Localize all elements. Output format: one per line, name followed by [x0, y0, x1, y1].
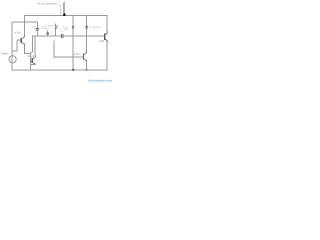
- inductor L1 coil: [64, 2, 65, 13]
- capacitor C1 vertical leads: [36, 22, 38, 36]
- svg-text:C2 4-40p: C2 4-40p: [44, 24, 53, 27]
- svg-text:BC548: BC548: [28, 55, 35, 58]
- resistor R1 dashes: [72, 26, 74, 28]
- wire top supply rail: [25, 15, 107, 17]
- wire Q2 base stub: [30, 60, 32, 62]
- wire Q1 emitter vertical: [24, 45, 26, 54]
- transistor Q1 emitter arrow: [23, 43, 25, 45]
- transistor Q2 emitter diagonal: [32, 62, 35, 64]
- transistor Q4 bar: [104, 34, 106, 40]
- wire mic top lead / left vertical: [11, 22, 13, 56]
- transistor Q3 collector diagonal: [84, 52, 88, 55]
- capacitor C2 trimmer stub leads: [47, 31, 49, 36]
- capacitor C3 plates: [54, 26, 57, 28]
- node junction dot ground rail at Q3 emitter: [86, 69, 87, 70]
- wire bypass leg rail-to-ground: [72, 16, 74, 71]
- svg-text:C1 4n7: C1 4n7: [30, 26, 36, 29]
- microphone MIC circle: [9, 56, 16, 63]
- transistor Q1 emitter diagonal: [21, 42, 25, 45]
- wire Q2 emitter jog: [30, 63, 35, 65]
- resistor R2 dashes: [86, 26, 88, 28]
- wire Q3 emitter vertical: [86, 62, 88, 70]
- inductor L1 top lead: [64, 13, 66, 14]
- svg-text:Par de Transistores: Par de Transistores: [37, 2, 58, 5]
- svg-text:Microfone: Microfone: [2, 53, 10, 56]
- wire main horizontal node A left part: [32, 35, 61, 37]
- wire Q1 collector vertical: [24, 15, 26, 36]
- microphone internal line: [11, 56, 13, 63]
- transistor Q4 collector diagonal: [105, 31, 107, 35]
- antenna faint wire: [59, 6, 62, 15]
- wire right-top drop to Q4 collector: [106, 16, 108, 32]
- wire Q2 collector vertical: [34, 36, 36, 55]
- wire drop from node A to Q2 base elbow: [30, 36, 32, 52]
- wire jog from mic node to Q1 base: [12, 41, 18, 52]
- svg-text:L 10k: L 10k: [62, 28, 69, 31]
- node junction dot ground rail at bypass leg: [72, 69, 74, 71]
- svg-text:trimmer: trimmer: [42, 27, 50, 30]
- wire Q1 emitter to Q2 base horizontal: [24, 53, 30, 55]
- svg-text:R2 10k 0.1uH: R2 10k 0.1uH: [89, 26, 102, 29]
- transistor Q2 collector diagonal: [32, 55, 35, 59]
- capacitor C1 plates: [36, 29, 39, 31]
- wire rail2 mic-to-C1: [12, 21, 37, 23]
- svg-text:BC548: BC548: [14, 32, 21, 35]
- wire Q3 collector vertical: [86, 36, 88, 52]
- svg-text:BC548: BC548: [73, 53, 80, 56]
- transistor Q3 emitter diagonal: [84, 59, 88, 62]
- wire mic bottom lead: [11, 63, 13, 70]
- node junction dot on rail under L1: [63, 13, 66, 16]
- wire node A drop toward Q3 base: [53, 40, 55, 58]
- transistor Q4 emitter diagonal: [105, 39, 107, 43]
- transistor Q2 bar: [31, 58, 33, 63]
- wire bottom ground rail: [12, 69, 108, 71]
- wire main horizontal node A right part: [63, 35, 105, 37]
- capacitor C4 series plates: [61, 34, 62, 38]
- capacitor C3 stub leads: [55, 23, 57, 36]
- transistor Q2 emitter arrow: [34, 63, 36, 65]
- wire Q3 base horizontal: [53, 56, 83, 58]
- svg-text:Mundodaeletronica: Mundodaeletronica: [88, 78, 112, 82]
- svg-text:BC548: BC548: [99, 40, 104, 43]
- transistor Q3 emitter arrow: [86, 60, 88, 62]
- wire Q1 base stub: [17, 39, 21, 41]
- wire R2 leg rail to node A: [86, 16, 88, 36]
- transistor Q3 bar: [83, 54, 85, 60]
- wire right-bottom from Q4 emitter to bottom rail: [106, 42, 108, 70]
- wire Q2 base vertical: [29, 52, 31, 70]
- transistor Q1 bar: [20, 38, 22, 43]
- transistor Q4 emitter arrow: [106, 39, 108, 41]
- transistor Q1 collector diagonal: [21, 36, 25, 39]
- capacitor C2 plates: [46, 33, 49, 34]
